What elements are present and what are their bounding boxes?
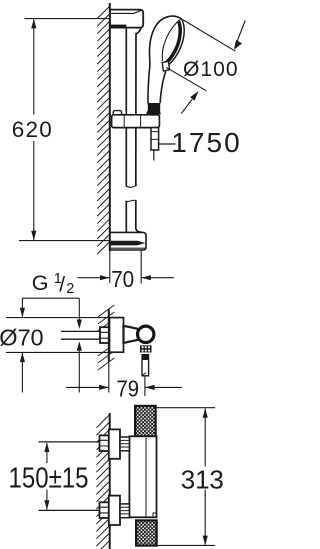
label 1750 (hose length) bbox=[159, 143, 176, 145]
dimension Ø70 bbox=[6, 317, 110, 319]
slider holder body bbox=[112, 115, 160, 128]
wall hatching (middle view) bbox=[98, 305, 115, 370]
dimension 313 bbox=[156, 407, 215, 409]
svg-text:313: 313 bbox=[181, 464, 224, 494]
wall (middle view) bbox=[108, 309, 110, 362]
union taper body bbox=[124, 326, 139, 343]
handle end cap (dark) bbox=[148, 103, 160, 116]
dimension 620 bbox=[25, 18, 110, 20]
thermostat body bbox=[129, 436, 156, 517]
lower supply pipe / extension line bbox=[39, 509, 100, 511]
dimension Ø100 bbox=[183, 20, 236, 52]
lower supply: union connector bbox=[120, 504, 129, 518]
head inner line bbox=[162, 19, 180, 61]
lower supply: escutcheon bbox=[109, 496, 120, 525]
lower supply: hex nut bbox=[100, 502, 109, 518]
upper supply: escutcheon bbox=[109, 429, 120, 458]
hose connector below holder bbox=[151, 128, 159, 150]
svg-text:620: 620 bbox=[12, 117, 52, 142]
G1/2 label shelf line bbox=[22, 297, 79, 299]
svg-text:79: 79 bbox=[117, 376, 140, 402]
wall (bottom view) bbox=[109, 413, 111, 549]
escutcheon (side view) bbox=[110, 318, 124, 353]
rail bottom mounting bracket bbox=[110, 232, 146, 250]
svg-text:70: 70 bbox=[111, 266, 134, 292]
dimension 70 bbox=[140, 250, 142, 284]
upper supply: hex nut bbox=[100, 435, 109, 451]
supply pipe stub bbox=[61, 331, 100, 339]
rail break symbol bbox=[126, 185, 137, 187]
head face edge bbox=[166, 19, 185, 67]
svg-text:2: 2 bbox=[66, 281, 74, 297]
hose line bbox=[153, 150, 155, 161]
hand shower head bbox=[149, 16, 181, 66]
hose outlet tube bbox=[142, 360, 149, 376]
valve body circle bbox=[138, 326, 154, 342]
rail top mounting bracket bbox=[110, 10, 143, 28]
svg-text:Ø70: Ø70 bbox=[0, 324, 44, 350]
wall hatching (bottom view) bbox=[96, 415, 109, 549]
pipe nut behind wall bbox=[100, 327, 109, 343]
wall hatching (top view) bbox=[97, 6, 110, 254]
hose ferrule bbox=[141, 354, 149, 360]
upper supply: union connector bbox=[120, 437, 129, 451]
svg-text:150±15: 150±15 bbox=[9, 462, 89, 494]
head dark rim band bbox=[165, 21, 180, 63]
svg-text:G: G bbox=[32, 271, 49, 295]
dimension 79 bbox=[144, 376, 146, 396]
svg-text:Ø100: Ø100 bbox=[183, 58, 238, 81]
G1/2 leader lines with arrows bbox=[78, 298, 80, 319]
handle cap inside holder bbox=[146, 109, 161, 115]
head base block bbox=[162, 61, 169, 71]
rail tube (lower segment) bbox=[126, 200, 142, 232]
slider holder clamp lever bbox=[113, 111, 121, 116]
thermostat temperature handle (knurled, top) bbox=[135, 406, 156, 436]
thermostat volume handle (knurled, bottom) bbox=[136, 520, 157, 545]
dimension 150±15 bbox=[46, 443, 48, 463]
shower handle bbox=[148, 67, 150, 104]
svg-text:/: / bbox=[59, 273, 65, 296]
knurled hose nut bbox=[140, 345, 152, 352]
rail tube (upper segment with taper) bbox=[125, 28, 127, 186]
upper supply pipe / extension line bbox=[39, 441, 100, 443]
wall (top view) bbox=[109, 3, 111, 251]
